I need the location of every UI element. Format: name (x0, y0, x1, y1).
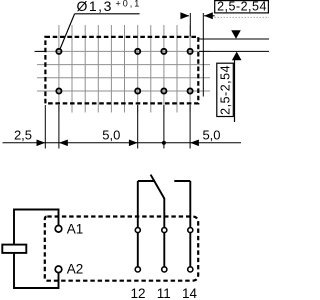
svg-text:11: 11 (157, 286, 171, 300)
svg-text:5,0: 5,0 (202, 127, 220, 142)
svg-text:14: 14 (182, 286, 198, 300)
svg-text:2,5-2,54: 2,5-2,54 (217, 0, 267, 14)
svg-text:Ø1,3: Ø1,3 (77, 0, 113, 14)
svg-text:+0,1: +0,1 (116, 0, 142, 8)
svg-text:A1: A1 (67, 221, 84, 236)
svg-text:A2: A2 (67, 261, 84, 276)
svg-text:5,0: 5,0 (102, 127, 120, 142)
svg-text:2,5: 2,5 (14, 127, 32, 142)
svg-text:2,5-2,54: 2,5-2,54 (219, 65, 233, 115)
svg-text:12: 12 (130, 286, 145, 300)
